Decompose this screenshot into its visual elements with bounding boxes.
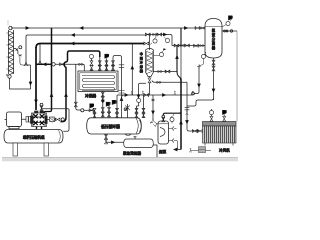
suction from y=95 — [152, 95, 154, 120]
wire separator drop bends — [187, 98, 214, 106]
wire drain corner x=138.5 — [138, 95, 140, 98]
pump right valves — [169, 127, 177, 131]
svg-text:紧急泄氨器: 紧急泄氨器 — [123, 150, 141, 155]
shaft right — [47, 119, 50, 121]
top instrument — [153, 39, 157, 43]
bottom-left instrument — [201, 54, 205, 58]
wire funnel feed from main line up — [139, 83, 147, 95]
riser x=76 from suction line down — [76, 64, 81, 110]
stem x=127.5 diag valve — [127, 104, 129, 118]
stem x=94.5 — [94, 110, 96, 118]
instrument under corner — [165, 38, 169, 42]
wire drop x=132.3 from H3 to y=95 — [131, 44, 133, 95]
coil top circle — [9, 26, 12, 29]
valves into evaporator — [192, 130, 197, 133]
bottom outlet — [213, 58, 215, 100]
gauge column x=121.5 — [121, 62, 123, 118]
wire coil bottom loop — [10, 78, 31, 89]
right nozzle y=31 — [222, 30, 237, 32]
pump instrument — [170, 117, 174, 121]
svg-text:螺杆压缩机组: 螺杆压缩机组 — [23, 134, 45, 139]
pump body — [158, 121, 169, 144]
motor — [7, 112, 22, 127]
compressor body — [31, 111, 48, 129]
floor line — [2, 157, 238, 159]
evap top instruments — [209, 110, 213, 114]
vertical label — [140, 51, 143, 73]
wire x=69 down to oil sep tank — [63, 109, 69, 132]
valve+inst on coil right — [14, 49, 18, 55]
H1 valve into vessel — [195, 27, 200, 30]
wire thick T3 y=51 — [68, 51, 100, 57]
svg-text:冷风机: 冷风机 — [219, 147, 230, 152]
wire y=34.5 train — [146, 35, 172, 46]
wire x51.5 bend into compressor — [44, 110, 52, 113]
svg-text:冷凝器: 冷凝器 — [85, 93, 96, 98]
circle + stems x=136.5,143.5 — [137, 98, 141, 102]
wire thick riser x=181 — [180, 79, 182, 150]
stem x=117 w/ flag — [116, 95, 118, 118]
wire y=45.5 train to separator — [172, 45, 205, 47]
wire thick y=64.3 link — [36, 63, 52, 65]
svg-text:却: 却 — [140, 64, 143, 69]
loop to gauge column — [113, 56, 122, 63]
wire riser x=177 from train down, S-jog to 181 — [177, 46, 181, 82]
svg-text:间: 间 — [140, 55, 143, 60]
wire vessel top stem — [149, 35, 151, 51]
stem1 x=91.5 instrument — [89, 54, 93, 58]
wire evap feed x=187 — [187, 82, 200, 131]
wire vertical x=30 down to loop — [30, 65, 32, 89]
H3 drop with bell x=40 — [38, 44, 42, 65]
wire thin y=65 link — [24, 64, 31, 66]
vessel bottom outlet + y=71.5 line — [149, 77, 151, 78]
compressor top oil line — [42, 106, 69, 111]
condenser coil — [82, 76, 115, 91]
wire H1 top bus y=28 — [11, 27, 205, 29]
svg-text:氨泵: 氨泵 — [159, 149, 167, 154]
svg-text:离: 离 — [212, 41, 215, 46]
legs — [13, 143, 18, 156]
wire x=199 drop — [195, 67, 200, 94]
stem x=109 — [108, 103, 110, 118]
wire H3 thick bus y=43.5 — [40, 43, 144, 45]
coupling — [26, 117, 28, 123]
pump top feed from y=95 via x=179 — [163, 112, 181, 122]
coil body — [9, 30, 14, 74]
side instrument — [159, 52, 163, 56]
top right instruments — [229, 16, 233, 20]
svg-text:器: 器 — [140, 69, 143, 73]
svg-text:中: 中 — [140, 51, 143, 56]
oil separator tank — [4, 130, 63, 144]
condenser box — [78, 71, 118, 92]
svg-text:冷: 冷 — [140, 60, 143, 65]
stem4 x=113 — [112, 59, 114, 71]
wire H2 bus y=35 — [24, 35, 146, 66]
tank bottom drain — [105, 134, 107, 139]
bottom drain row — [191, 150, 212, 152]
wire thick vertical x=51.5 — [51, 28, 53, 110]
wire y=82.3 outlet line to x=187 — [152, 81, 187, 83]
stem3 x=106.5 flag — [105, 54, 109, 58]
stem2 x=100 — [99, 57, 101, 71]
wire thick vertical x=36 suction — [35, 47, 37, 110]
coil bottom circle — [8, 75, 11, 78]
svg-text:低压循环桶: 低压循环桶 — [101, 124, 120, 129]
